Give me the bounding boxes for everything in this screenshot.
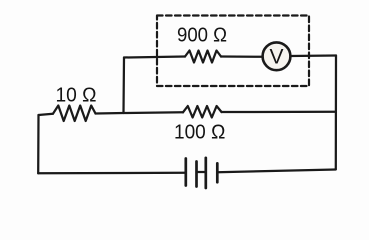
wire voltmeter to right [291, 54, 337, 57]
svg-text:V: V [269, 46, 283, 69]
wire bottom-left to battery [38, 172, 185, 175]
wire top-left segment [124, 57, 185, 58]
svg-text:900 Ω: 900 Ω [177, 25, 227, 47]
wire 100 ohm to right vertical [222, 111, 336, 113]
battery inter-cell link wire [197, 171, 206, 173]
wire 10 ohm to junction and on to 100 ohm [96, 112, 184, 113]
voltmeter U1 circle [263, 42, 291, 70]
wire battery to bottom-right [217, 170, 335, 173]
battery cell plate 2 (long) [195, 162, 198, 187]
wire left stub to 10 ohm [39, 114, 54, 115]
resistor 100 ohm zigzag [183, 106, 222, 118]
battery cell plate 1 (long) [184, 159, 187, 186]
svg-text:100 Ω: 100 Ω [174, 121, 225, 144]
battery cell plate 4 (short) [216, 163, 219, 182]
svg-text:10 Ω: 10 Ω [56, 84, 97, 106]
resistor 10 ohm zigzag [53, 106, 96, 122]
wire right vertical [335, 56, 337, 170]
dashed box (galvanometer-voltmeter enclosure) [157, 16, 309, 87]
wire resistor to voltmeter [221, 55, 263, 58]
battery cell plate 3 (long) [204, 158, 207, 188]
resistor 900 ohm zigzag [185, 51, 221, 63]
wire junction vertical up to top branch [122, 58, 125, 114]
wire left vertical [37, 115, 40, 173]
